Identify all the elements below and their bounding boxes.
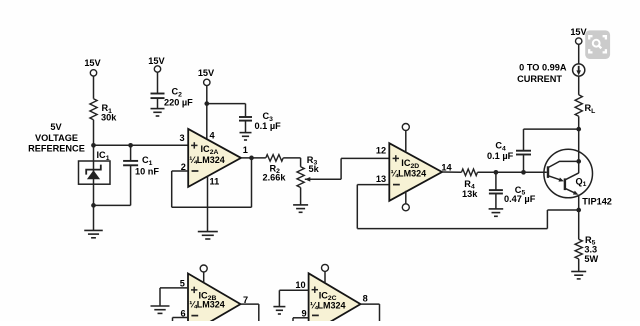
svg-text:15V: 15V bbox=[570, 27, 587, 37]
svg-text:0 TO 0.99A: 0 TO 0.99A bbox=[519, 63, 567, 73]
svg-text:5: 5 bbox=[180, 279, 185, 289]
svg-text:TIP142: TIP142 bbox=[582, 197, 612, 207]
svg-text:14: 14 bbox=[441, 162, 452, 172]
svg-text:15V: 15V bbox=[84, 58, 101, 68]
svg-text:15V: 15V bbox=[198, 68, 215, 78]
svg-text:0.1 µF: 0.1 µF bbox=[255, 121, 282, 131]
svg-text:15V: 15V bbox=[148, 56, 165, 66]
svg-text:9: 9 bbox=[301, 308, 306, 318]
svg-text:¼LM324: ¼LM324 bbox=[391, 168, 427, 178]
svg-text:13: 13 bbox=[376, 174, 386, 184]
svg-text:0.47 µF: 0.47 µF bbox=[504, 194, 536, 204]
svg-text:30k: 30k bbox=[101, 113, 117, 123]
svg-text:¼LM324: ¼LM324 bbox=[310, 301, 346, 311]
svg-text:13k: 13k bbox=[462, 189, 478, 199]
svg-text:10: 10 bbox=[295, 280, 305, 290]
svg-text:2.66k: 2.66k bbox=[263, 173, 287, 183]
svg-text:0.1 µF: 0.1 µF bbox=[487, 151, 514, 161]
svg-text:5W: 5W bbox=[584, 254, 598, 264]
svg-text:10 nF: 10 nF bbox=[135, 167, 159, 177]
svg-text:8: 8 bbox=[363, 293, 368, 303]
svg-text:220 µF: 220 µF bbox=[164, 98, 193, 108]
svg-text:12: 12 bbox=[376, 146, 386, 156]
svg-text:4: 4 bbox=[210, 130, 216, 140]
svg-text:CURRENT: CURRENT bbox=[517, 74, 562, 84]
svg-text:¼LM324: ¼LM324 bbox=[189, 155, 225, 165]
svg-text:¼LM324: ¼LM324 bbox=[189, 300, 225, 310]
svg-text:3: 3 bbox=[179, 133, 184, 143]
svg-text:11: 11 bbox=[210, 177, 220, 187]
svg-text:REFERENCE: REFERENCE bbox=[28, 144, 85, 154]
svg-text:3.3: 3.3 bbox=[584, 245, 597, 255]
svg-text:VOLTAGE: VOLTAGE bbox=[35, 133, 78, 143]
svg-text:5V: 5V bbox=[50, 122, 62, 132]
svg-text:5k: 5k bbox=[309, 164, 320, 174]
svg-text:1: 1 bbox=[243, 145, 248, 155]
